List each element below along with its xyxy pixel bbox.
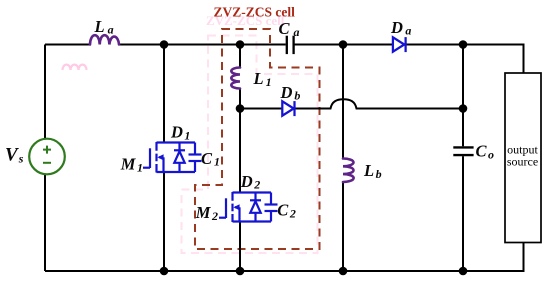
node bottom Co xyxy=(459,267,468,276)
wire left rail xyxy=(44,45,46,272)
wire L1/M2 branch vertical xyxy=(239,45,241,272)
inductor La xyxy=(90,35,119,44)
wire output branch vertical xyxy=(462,45,464,272)
capacitor Ca xyxy=(287,36,294,54)
capacitor Co xyxy=(453,147,473,155)
transistor M2 with body diode D2 and capacitor C2 xyxy=(219,192,278,222)
inductor Lb xyxy=(343,159,354,183)
ghost echo of ZVZ-ZCS cell dashed border xyxy=(182,36,318,254)
node top Lb xyxy=(339,40,348,49)
node bottom Lb xyxy=(339,267,348,276)
ghost echo of La coil xyxy=(63,65,87,70)
node bottom M1 xyxy=(160,267,169,276)
transistor M1 with body diode D1 and capacitor C1 xyxy=(143,142,202,173)
node top L1 xyxy=(236,40,245,49)
inductor L1 xyxy=(231,68,240,89)
node bottom M2 xyxy=(236,267,245,276)
wire Db row with hop over Lb branch xyxy=(240,99,463,108)
diode Db xyxy=(282,101,294,116)
wire bottom rail xyxy=(45,243,524,272)
node top M1 xyxy=(160,40,169,49)
wire M1 branch vertical xyxy=(163,45,165,272)
voltage source Vs xyxy=(29,139,65,175)
wire top rail xyxy=(45,45,524,74)
node top output xyxy=(459,40,468,49)
wire Lb branch vertical xyxy=(342,45,344,272)
svg-text:source: source xyxy=(507,155,538,169)
output source box xyxy=(505,73,541,243)
diode Da xyxy=(393,37,406,52)
node L1 bottom xyxy=(236,104,245,113)
ZVZ-ZCS cell dashed border xyxy=(195,29,320,249)
node Db right xyxy=(459,104,468,113)
svg-text:ZVZ-ZCS cell: ZVZ-ZCS cell xyxy=(214,4,296,19)
